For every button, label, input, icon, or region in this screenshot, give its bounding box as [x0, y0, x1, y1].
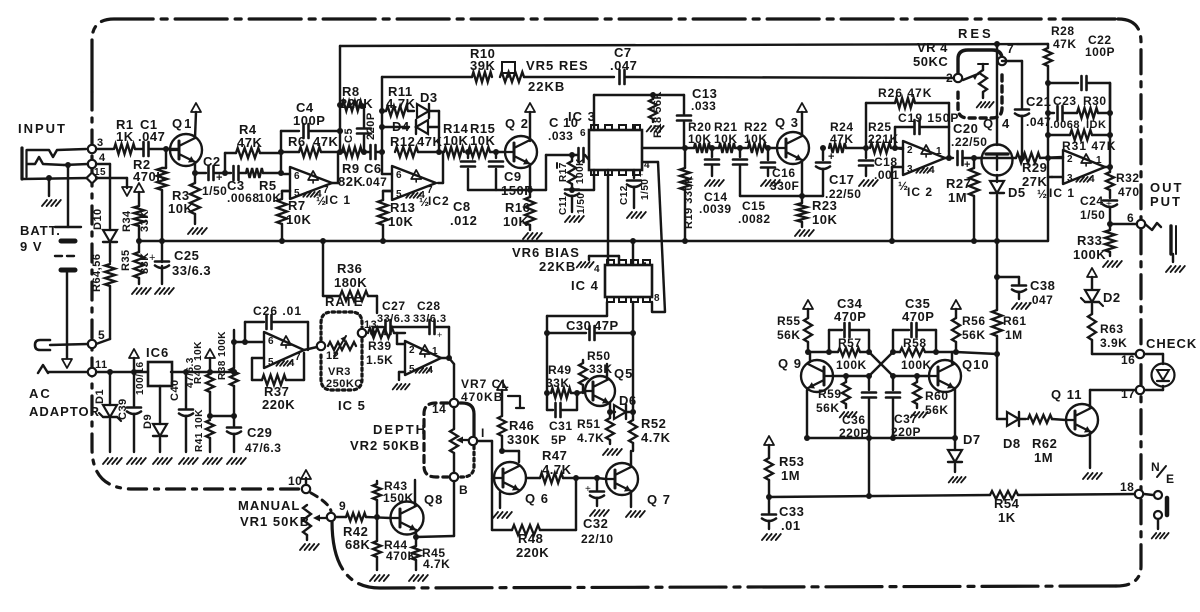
svg-text:220P: 220P	[365, 112, 377, 140]
svg-text:D7: D7	[963, 432, 981, 447]
wire VR4 node2	[953, 77, 955, 79]
svg-text:IC 5: IC 5	[338, 398, 366, 413]
svg-text:C27: C27	[382, 299, 406, 313]
label AC ADAPTOR	[29, 386, 100, 419]
capacitor C11 1/50	[558, 187, 587, 222]
capacitor C26 .01	[242, 304, 308, 350]
svg-text:100K: 100K	[1073, 247, 1106, 262]
svg-text:R51: R51	[577, 417, 601, 431]
svg-text:R31 47K: R31 47K	[1062, 139, 1116, 153]
diode D8	[997, 412, 1026, 451]
svg-text:BATT.: BATT.	[20, 223, 61, 238]
svg-text:C31: C31	[549, 419, 573, 433]
resistor R44 470K	[370, 517, 417, 581]
resistor R63 3.9K	[1088, 314, 1135, 354]
resistor R51 4.7K	[577, 412, 622, 455]
resistor R39 1.5K	[366, 328, 405, 367]
capacitor C13 .033	[677, 86, 717, 148]
svg-text:180K: 180K	[334, 275, 367, 290]
svg-text:1/50: 1/50	[576, 193, 587, 214]
svg-text:Q 2: Q 2	[505, 116, 529, 131]
svg-text:VR7 CL: VR7 CL	[461, 377, 510, 391]
transistor Q2	[496, 103, 537, 193]
resistor R50 33K	[579, 349, 613, 393]
diode D6	[607, 393, 637, 419]
capacitor C39 100/16	[117, 349, 146, 464]
svg-text:33/6.3: 33/6.3	[377, 313, 411, 325]
svg-text:R38 100K: R38 100K	[217, 331, 228, 380]
svg-text:.047: .047	[1028, 293, 1053, 307]
svg-text:6: 6	[268, 336, 274, 347]
svg-text:47K: 47K	[1053, 37, 1077, 51]
svg-text:R32: R32	[1116, 171, 1140, 185]
resistor R17 100K	[558, 152, 586, 188]
svg-text:R54: R54	[994, 496, 1020, 511]
wire C15-R23 row	[740, 195, 823, 197]
svg-text:22KB: 22KB	[539, 259, 576, 274]
svg-text:47K: 47K	[313, 134, 338, 149]
svg-text:47P: 47P	[594, 318, 619, 333]
svg-text:10K: 10K	[286, 212, 311, 227]
resistor R11 4.7K	[382, 84, 416, 116]
svg-text:C11: C11	[558, 196, 569, 215]
wire R61 to LFO	[956, 352, 997, 354]
svg-text:5P: 5P	[551, 433, 567, 447]
svg-text:1/50: 1/50	[1080, 208, 1105, 222]
wire VR4 node7	[1002, 61, 1022, 109]
svg-text:Q 7: Q 7	[647, 492, 671, 507]
capacitor C27 33/6.3	[373, 299, 428, 340]
svg-text:10K: 10K	[258, 191, 282, 205]
capacitor C32 22/10	[581, 478, 614, 546]
resistor R4 47K	[225, 122, 281, 158]
svg-text:B: B	[459, 483, 468, 497]
resistor R21 10K	[714, 120, 748, 153]
resistor R27 1M	[946, 158, 979, 244]
svg-text:56K: 56K	[816, 401, 840, 415]
transistor Q8	[391, 470, 444, 540]
resistor R28 47K	[1044, 24, 1077, 113]
resistor R59 56K	[816, 376, 857, 417]
capacitor C18 .001	[859, 148, 899, 186]
svg-text:Q10: Q10	[962, 357, 990, 372]
wire LFO cross coupling	[846, 352, 917, 379]
svg-text:R33: R33	[1077, 233, 1102, 248]
svg-text:C28: C28	[417, 299, 441, 313]
resistor R32 470	[1106, 167, 1140, 199]
svg-text:10K: 10K	[388, 214, 413, 229]
svg-text:330F: 330F	[770, 179, 799, 193]
resistor R45 4.7K	[409, 537, 450, 581]
svg-text:2: 2	[907, 145, 913, 156]
svg-text:.033: .033	[691, 99, 716, 113]
svg-text:220K: 220K	[516, 545, 549, 560]
wire main row IC3 to Q3	[642, 145, 694, 151]
label DEPTH VR2 50KB	[350, 422, 427, 453]
capacitor C17 .22/50	[816, 145, 861, 201]
node 6 output	[1110, 211, 1145, 228]
resistor R31 47K	[1045, 130, 1116, 153]
label OUT PUT	[1150, 180, 1183, 209]
capacitor C7 .047	[610, 45, 954, 84]
wire IC5b out to node14	[441, 355, 454, 399]
svg-text:1K: 1K	[116, 129, 134, 144]
capacitor C23 .0068 / resistor R30 10K	[1045, 94, 1113, 131]
svg-text:1M: 1M	[781, 468, 800, 483]
wire R10 line left end	[381, 77, 383, 152]
svg-text:IC 2: IC 2	[907, 185, 933, 199]
svg-text:9: 9	[339, 499, 346, 513]
svg-text:.0068: .0068	[227, 191, 260, 205]
resistor R37 220K	[252, 353, 304, 412]
svg-text:C2: C2	[203, 154, 221, 169]
diode D9	[142, 386, 172, 464]
transistor Q10	[914, 352, 990, 438]
svg-text:3: 3	[1067, 173, 1073, 184]
transistor Q9	[778, 352, 849, 441]
svg-text:R39: R39	[368, 339, 392, 353]
capacitor C36 220P	[839, 376, 876, 441]
svg-text:Q5: Q5	[614, 366, 633, 381]
wire LFO bottom rail	[807, 438, 955, 499]
resistor R36 180K	[320, 238, 377, 313]
svg-text:C38: C38	[1030, 278, 1055, 293]
resistor R22 10K	[744, 120, 777, 153]
svg-text:1M: 1M	[1034, 450, 1053, 465]
svg-text:11: 11	[95, 359, 108, 371]
svg-text:5: 5	[268, 357, 274, 368]
output jack	[1145, 223, 1185, 272]
resistor R35 33K	[120, 238, 151, 294]
wire IC1 input column	[278, 131, 284, 173]
svg-text:R7: R7	[288, 198, 306, 213]
svg-text:+: +	[437, 330, 442, 340]
resistor R40 10K	[193, 341, 215, 419]
op-amp IC1b	[1037, 150, 1105, 201]
capacitor C5 220P	[343, 106, 377, 152]
svg-text:470P: 470P	[834, 309, 866, 324]
node 5 AC	[88, 328, 105, 348]
bias rail y241	[139, 240, 1048, 242]
svg-text:18: 18	[1120, 480, 1134, 494]
svg-text:R61: R61	[1003, 314, 1027, 328]
svg-text:D9: D9	[142, 414, 154, 429]
svg-text:1K: 1K	[998, 510, 1016, 525]
svg-text:R40 10K: R40 10K	[193, 341, 204, 384]
svg-text:D8: D8	[1003, 436, 1021, 451]
svg-text:IC 3: IC 3	[568, 109, 596, 124]
wire node4	[64, 162, 88, 168]
svg-text:2: 2	[946, 71, 953, 85]
svg-text:C29: C29	[247, 425, 272, 440]
svg-text:I: I	[481, 426, 485, 440]
svg-text:C32: C32	[583, 516, 608, 531]
svg-text:R6: R6	[288, 134, 306, 149]
svg-text:15: 15	[94, 167, 106, 178]
svg-text:.01: .01	[781, 518, 801, 533]
resistor R62 1M	[1028, 415, 1066, 465]
supply arrow IC3	[634, 114, 636, 130]
svg-text:½: ½	[1037, 187, 1048, 201]
svg-text:R48: R48	[518, 531, 543, 546]
svg-text:ADAPTOR: ADAPTOR	[29, 404, 100, 419]
svg-text:IC6: IC6	[146, 345, 169, 360]
op-amp IC2b	[889, 141, 945, 244]
svg-text:10K: 10K	[503, 214, 528, 229]
svg-text:.047: .047	[138, 129, 165, 144]
capacitor C31 5P	[547, 393, 577, 447]
svg-text:R50: R50	[587, 349, 611, 363]
resistor R60 56K	[911, 376, 949, 417]
svg-text:.001: .001	[874, 168, 899, 182]
svg-text:100/16: 100/16	[135, 361, 146, 395]
switch contacts	[1144, 491, 1169, 538]
svg-text:100K: 100K	[836, 358, 867, 372]
input jack	[22, 148, 88, 206]
wire main 9V row	[96, 369, 237, 375]
label N/E	[1151, 460, 1175, 486]
battery BATT 9V	[20, 165, 81, 368]
transistor Q6	[494, 462, 549, 506]
capacitor C12 1/50	[619, 170, 651, 218]
svg-text:IC 1: IC 1	[1049, 186, 1075, 200]
svg-text:33K: 33K	[139, 210, 151, 232]
transistor Q4 jfet	[974, 41, 1013, 182]
svg-text:4: 4	[594, 264, 600, 275]
svg-text:2: 2	[1067, 154, 1073, 165]
svg-text:330K: 330K	[507, 432, 540, 447]
svg-text:R26 47K: R26 47K	[878, 86, 932, 100]
svg-text:56K: 56K	[962, 328, 986, 342]
wire IC2b out	[945, 103, 953, 161]
diode D10	[92, 164, 117, 262]
capacitor C30 47P	[544, 318, 636, 410]
diode D2	[1081, 268, 1121, 314]
capacitor C3 .0068	[225, 166, 260, 205]
transistor Q1	[166, 103, 202, 176]
svg-text:VR5 RES: VR5 RES	[526, 58, 589, 73]
svg-text:C26 .01: C26 .01	[253, 304, 302, 318]
svg-text:3.9K: 3.9K	[1100, 336, 1127, 350]
pot VR1... RATE VR3 250KC	[317, 294, 377, 390]
svg-text:R49: R49	[548, 363, 572, 377]
svg-text:+: +	[149, 252, 155, 264]
svg-text:100P: 100P	[1085, 45, 1115, 59]
trimmer VR7 CL 470KB	[461, 377, 524, 408]
resistor R47 4.7K	[526, 448, 600, 483]
capacitor C35 470P	[893, 296, 936, 352]
svg-text:150K: 150K	[383, 491, 414, 505]
supply arrow VR6 wiper	[556, 152, 558, 168]
op-amp IC1a	[281, 167, 351, 208]
svg-text:.012: .012	[450, 213, 477, 228]
svg-text:D1: D1	[94, 389, 106, 404]
capacitor C21 .047	[1015, 94, 1051, 161]
svg-text:100K: 100K	[575, 158, 586, 184]
svg-text:D2: D2	[1103, 290, 1121, 305]
svg-text:250KC: 250KC	[326, 378, 363, 390]
trimmer VR5 RES 22KB	[500, 58, 614, 94]
resistor R33 100K	[1073, 224, 1122, 267]
resistor R1 1K	[114, 117, 135, 154]
svg-text:4: 4	[99, 152, 106, 164]
label CHECK	[1146, 336, 1197, 351]
svg-text:3: 3	[907, 164, 913, 175]
svg-text:Q 6: Q 6	[525, 491, 549, 506]
resistor R12 47K	[390, 134, 442, 157]
svg-text:DEPTH: DEPTH	[373, 422, 427, 437]
svg-text:.0068: .0068	[1050, 119, 1080, 131]
svg-text:IC2: IC2	[428, 194, 450, 208]
svg-text:C33: C33	[779, 504, 804, 519]
svg-text:10: 10	[288, 474, 302, 488]
svg-text:C36: C36	[842, 413, 866, 427]
op-amp IC5a	[234, 332, 366, 413]
wire IC4 out to C30	[547, 238, 636, 410]
resistor R19 330K	[680, 148, 695, 244]
svg-text:CHECK: CHECK	[1146, 336, 1197, 351]
svg-text:10K: 10K	[812, 212, 837, 227]
wire R38 to IC5 pin6	[231, 339, 237, 345]
capacitor C14 .0039	[699, 148, 732, 216]
svg-text:VR 4: VR 4	[917, 40, 948, 55]
svg-text:1: 1	[936, 146, 942, 157]
svg-text:C25: C25	[174, 248, 199, 263]
svg-text:5: 5	[409, 364, 415, 375]
label VR6 BIAS 22KB	[512, 245, 594, 274]
svg-text:RES: RES	[958, 26, 994, 41]
node 17	[1121, 386, 1144, 401]
resistor R10 39K	[382, 46, 495, 82]
svg-text:R13: R13	[390, 200, 415, 215]
node 16	[1121, 350, 1144, 367]
svg-text:IC 1: IC 1	[325, 193, 351, 207]
svg-text:3: 3	[97, 137, 104, 149]
wire LFO top rows	[808, 349, 956, 355]
svg-text:50KC: 50KC	[913, 54, 948, 69]
svg-text:82K: 82K	[338, 174, 363, 189]
capacitor C24 1/50	[1080, 194, 1117, 227]
resistor R64,56	[91, 254, 115, 344]
svg-text:C5: C5	[343, 128, 355, 143]
diode D3	[379, 90, 439, 152]
svg-text:1M: 1M	[1005, 328, 1023, 342]
svg-text:6: 6	[294, 171, 300, 182]
capacitor C25 33/6.3	[149, 241, 211, 294]
transistor Q3	[775, 103, 809, 199]
svg-text:E: E	[1166, 472, 1175, 486]
svg-text:1.5K: 1.5K	[366, 353, 393, 367]
label MANUAL VR1 50KB	[238, 498, 310, 529]
svg-text:2: 2	[409, 345, 415, 356]
resistor R61 1M	[992, 277, 1027, 357]
node 18	[1120, 480, 1143, 498]
resistor R14 10K	[439, 121, 471, 157]
resistor R57 100K	[836, 336, 867, 372]
resistor R3 10K	[168, 173, 207, 234]
svg-text:C16: C16	[772, 166, 796, 180]
svg-text:N: N	[1151, 460, 1160, 474]
svg-text:470P: 470P	[902, 309, 934, 324]
svg-text:R46: R46	[509, 418, 534, 433]
svg-text:Q1: Q1	[172, 116, 193, 131]
svg-text:8: 8	[654, 293, 660, 304]
resistor R13 10K	[378, 191, 415, 244]
svg-text:C9: C9	[504, 169, 522, 184]
resistor R24 47K	[829, 120, 869, 153]
svg-text:D3: D3	[420, 90, 438, 105]
wire R61 down to D8	[996, 354, 998, 419]
resistor R41 10K	[194, 409, 222, 464]
svg-text:.22/50: .22/50	[951, 135, 987, 149]
svg-text:C30: C30	[566, 318, 591, 333]
svg-text:R47: R47	[542, 448, 567, 463]
pot VR1 50KB	[300, 505, 327, 550]
wire IC2a out	[438, 152, 443, 183]
svg-text:VR2 50KB: VR2 50KB	[350, 438, 420, 453]
svg-text:C17: C17	[829, 172, 854, 187]
node 9	[327, 499, 346, 521]
capacitor C15 .0082	[733, 148, 771, 226]
svg-text:47K: 47K	[417, 134, 442, 149]
svg-text:R52: R52	[641, 416, 666, 431]
pot VR2 depth box	[416, 399, 492, 537]
svg-text:5: 5	[396, 189, 402, 200]
svg-text:33K: 33K	[589, 362, 613, 376]
svg-text:R59: R59	[818, 387, 842, 401]
svg-text:.22/50: .22/50	[825, 187, 861, 201]
resistor R15 10K	[468, 121, 496, 157]
wire IC1b out node	[1105, 83, 1113, 170]
resistor R46 330K	[497, 381, 540, 454]
capacitor C19 150P	[895, 111, 959, 151]
svg-text:6: 6	[396, 170, 402, 181]
svg-text:C15: C15	[742, 199, 766, 213]
svg-text:IDK: IDK	[1086, 119, 1106, 131]
ic IC6	[146, 345, 172, 386]
wire IC3 top loop	[594, 92, 684, 130]
svg-text:R28: R28	[1051, 24, 1075, 38]
capacitor C6 .047	[362, 145, 387, 189]
led check lamp	[1144, 354, 1175, 390]
svg-text:.0039: .0039	[699, 202, 732, 216]
resistor R26 47K	[866, 86, 949, 148]
svg-text:C20: C20	[953, 121, 978, 136]
transistor Q7	[597, 451, 671, 517]
svg-text:R34: R34	[121, 210, 133, 232]
resistor R6 47K	[281, 134, 340, 157]
svg-text:470KB: 470KB	[461, 390, 503, 404]
wire C2 node up to R4	[224, 153, 226, 173]
svg-text:56K: 56K	[777, 328, 801, 342]
svg-text:D6: D6	[619, 393, 637, 408]
resistor R20 10K	[688, 120, 719, 153]
svg-text:56K: 56K	[925, 403, 949, 417]
svg-text:7: 7	[1007, 42, 1014, 56]
capacitor C2 1/50	[195, 154, 228, 198]
svg-text:R30: R30	[1083, 94, 1107, 108]
svg-text:9 V: 9 V	[20, 239, 43, 254]
svg-text:RATE: RATE	[325, 294, 363, 309]
svg-text:OUT: OUT	[1150, 180, 1183, 195]
vertical trunk x340	[337, 46, 343, 152]
wire node15 stub	[96, 178, 132, 196]
resistor R49 33K	[544, 363, 580, 398]
wire x1048 column	[1047, 113, 1049, 177]
svg-text:R19 330K: R19 330K	[683, 175, 695, 229]
capacitor C37 220P	[886, 376, 921, 441]
svg-text:4.7K: 4.7K	[641, 430, 671, 445]
